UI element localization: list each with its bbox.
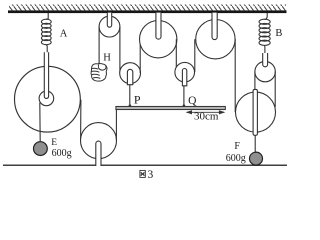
rope pulley1 to hand [98,27,100,65]
movable pulley under spring B [255,61,275,81]
stem pulley 1 [107,13,111,28]
dimension arrow 30cm [186,110,226,114]
spring A lower wire [45,45,48,53]
svg-text:3: 3 [148,169,154,181]
svg-text:E: E [51,138,57,148]
svg-text:A: A [60,28,68,39]
label F [234,141,240,152]
hub of left pulley [39,91,54,106]
pulley 4 middle fixed [140,21,177,58]
svg-text:B: B [275,28,282,39]
pulley 6 right fixed [196,20,235,59]
caption 图 glyph [140,170,145,177]
label Q [188,95,197,107]
label P [134,93,141,107]
svg-text:30cm: 30cm [194,110,219,122]
rope pulley1 to movable pulley P [119,27,121,73]
axle stem through bottom-right pulley [253,89,257,135]
hand H fist [91,64,107,82]
stem B pulley [263,53,268,67]
node P knot [129,104,132,107]
rope Q pulley to pulley6 [194,39,196,72]
svg-text:Q: Q [188,95,197,107]
stem pulley 4 [156,13,161,40]
node Q knot [183,104,186,107]
spring B lower wire [264,45,266,53]
wire/rope left pulley right tangent down [80,100,82,141]
rope pulley4 to movable pulley Q [175,39,177,72]
lever bar [116,106,225,109]
label B [275,28,282,39]
movable pulley (P side) [120,63,141,84]
label H [103,52,111,63]
rope B pulley right to BR pulley [274,72,276,107]
spring A coil [41,19,51,45]
rope pulley6 down to bottom-right pulley [234,39,236,112]
post of ground pulley [96,141,101,166]
label 600g (E) [52,148,72,159]
stem pulley 6 [212,13,217,40]
stem fork from spring A to hub [44,52,48,98]
ceiling band [8,10,287,13]
spring B hanger wire [265,13,268,20]
ceiling hatching [9,5,286,11]
pulley left big [15,66,81,132]
rope B pulley left to BR stem [254,72,256,90]
ground [3,164,287,166]
svg-text:P: P [134,93,141,107]
weight E [34,142,48,156]
rope P [129,85,131,107]
svg-text:600g: 600g [226,153,246,164]
spring A hanger wire [46,13,48,20]
rope stem to weight F [254,135,256,152]
rope P pulley to pulley4 [139,39,141,73]
spring B coil [259,19,270,45]
svg-text:F: F [234,141,240,152]
rope ground pulley to lever left end [115,108,117,141]
ground pulley (bottom middle) [81,123,117,159]
label 600g (F) [226,153,246,164]
label E [51,138,57,148]
weight F [250,152,263,165]
rope hub to weight E [39,103,41,142]
caption 3 [148,169,154,181]
bottom-right pulley [236,92,276,132]
rope Q [183,86,185,107]
movable pulley (Q side) [175,62,195,82]
svg-text:600g: 600g [52,148,72,159]
pulley 1 top-left fixed [99,16,120,37]
stem movable pulley Q [182,68,186,85]
label 30cm [194,110,219,122]
svg-text:H: H [103,52,111,63]
label A [60,28,68,39]
stem movable pulley P [127,69,132,84]
